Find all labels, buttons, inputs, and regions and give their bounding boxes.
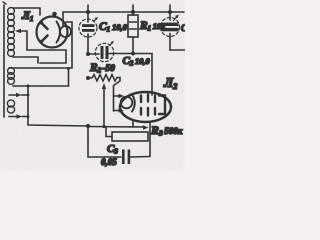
capacitor C1 (electrolytic in can) bbox=[79, 12, 98, 54]
capacitor C3 bbox=[122, 150, 150, 165]
node I (tap joins branch) bbox=[27, 94, 30, 97]
wire R2 to tube Л2 heater bbox=[114, 78, 121, 112]
wire L2 branch vertical to cathode line bbox=[28, 86, 88, 126]
node A bbox=[86, 10, 90, 14]
coil L1b (middle winding, 3 turns) bbox=[8, 68, 15, 85]
node C bbox=[168, 10, 172, 14]
wire C2 to tube Л2 grid bbox=[108, 54, 153, 96]
arrowhead at cathode junction bbox=[143, 125, 149, 129]
antenna lead (far-left vertical) bbox=[3, 2, 6, 117]
node G (rail/cathode wire) bbox=[86, 124, 90, 128]
wire C2 line bbox=[88, 53, 99, 55]
tube Л2 grid 1 bbox=[140, 96, 142, 115]
tube Л2 anode bracket bbox=[159, 96, 165, 115]
node J (bottom joins branch) bbox=[27, 115, 30, 118]
R2 wiper arrow from cathode line bbox=[102, 83, 106, 128]
heater arrow 2 bbox=[114, 108, 125, 112]
grid-leak vertical bbox=[149, 122, 151, 157]
node H (L2 branch top) bbox=[26, 84, 29, 87]
wire tube grid circle down the side to coil L1b top bbox=[9, 22, 72, 68]
svg-text:С: С bbox=[181, 23, 185, 33]
node F on rail bbox=[86, 76, 90, 80]
resistor R1 bbox=[128, 12, 138, 53]
coil L2 (bottom winding, 3 turns) bbox=[7, 100, 14, 113]
svg-text:С210,0: С210,0 bbox=[123, 55, 151, 68]
capacitor C4 (tuning, in can, top right) bbox=[161, 12, 186, 50]
wire coil L1a top to grid cap bbox=[13, 8, 40, 15]
tube Л2 (envelope, oval) bbox=[120, 92, 171, 122]
junction at drop bbox=[67, 67, 70, 70]
node B bbox=[131, 10, 135, 14]
tube Л2 grid 3 bbox=[154, 96, 156, 115]
wire drop to coil L1b bottom bbox=[68, 68, 70, 86]
svg-text:R3500к: R3500к bbox=[150, 123, 183, 138]
tube Л1 grid circle (right edge) bbox=[60, 26, 71, 37]
tube Л2 grid 2 bbox=[147, 95, 149, 116]
rail corner to C3 bbox=[88, 126, 121, 157]
tube Л1 anode arc bbox=[57, 22, 61, 43]
tube Л1 filament strokes bbox=[42, 23, 48, 42]
svg-text:0,05: 0,05 bbox=[101, 157, 117, 167]
cathode wire to V2 bbox=[88, 126, 144, 129]
tube Л1 (triode, circle) bbox=[37, 17, 68, 48]
stub above node C bbox=[169, 5, 171, 12]
wire L2 bottom with tap arrow bbox=[9, 116, 17, 118]
tap arrow on coil L1a bbox=[15, 29, 27, 33]
wire top rail corner to tube bbox=[62, 12, 64, 26]
tube Л2 cathode stub bbox=[132, 121, 134, 127]
node E (R1 joins C2 wire) bbox=[131, 52, 135, 56]
heater arrow 1 bbox=[114, 94, 125, 98]
wire coil L1b bottom to R2 node bbox=[13, 85, 69, 87]
tube Л2 heater circle bbox=[121, 97, 133, 109]
resistor R3 bbox=[106, 127, 148, 141]
svg-text:С110,0: С110,0 bbox=[99, 21, 128, 34]
tube Л2 cathode arc bbox=[132, 95, 135, 112]
coil L1a (top winding, 8 turns) bbox=[8, 8, 15, 57]
node D on rail bbox=[86, 52, 90, 56]
top rail bbox=[63, 11, 184, 13]
stub above node A bbox=[87, 5, 89, 12]
capacitor C2 (electrolytic in can) bbox=[95, 41, 114, 62]
wire coil L1a bottom jog bbox=[13, 57, 38, 63]
wire tap to under-tube loop bbox=[27, 31, 66, 63]
stub above node B bbox=[132, 5, 134, 12]
grid cap dot on tube bbox=[52, 12, 57, 17]
svg-text:R2-50: R2-50 bbox=[89, 62, 115, 75]
potentiometer R2 (zigzag) bbox=[88, 75, 117, 82]
tap arrow coil L2 bbox=[9, 93, 28, 97]
